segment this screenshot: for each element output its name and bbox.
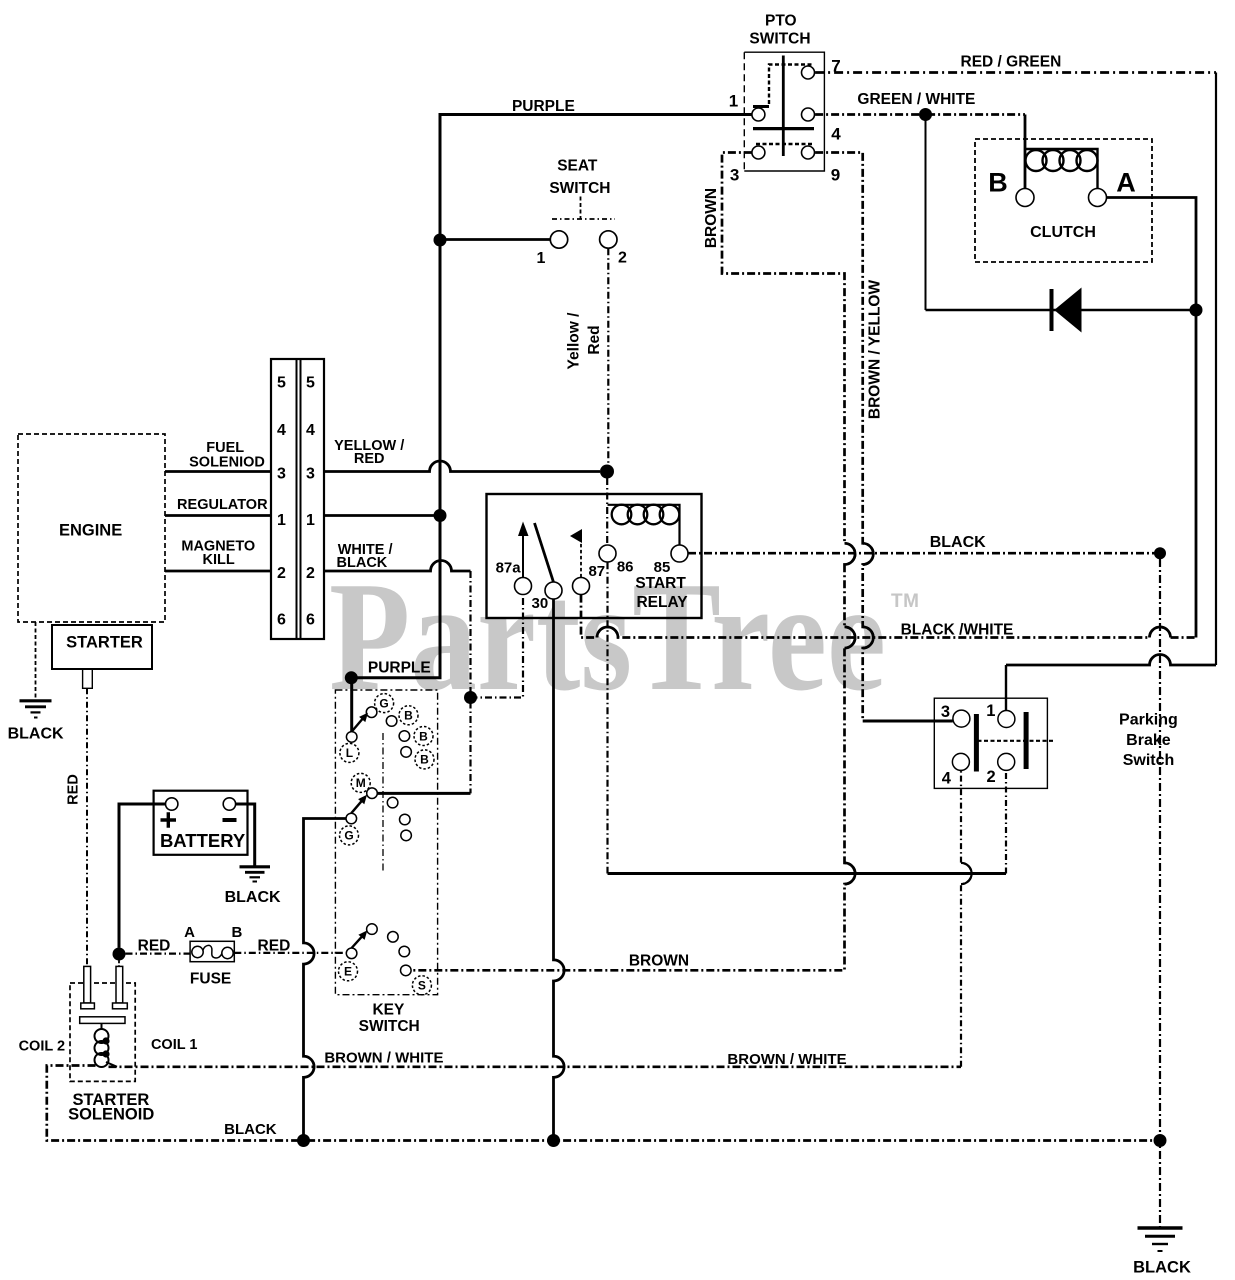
svg-text:RED: RED (258, 938, 291, 955)
svg-text:4: 4 (306, 422, 315, 439)
svg-text:BLACK: BLACK (1133, 1259, 1191, 1277)
svg-text:1: 1 (986, 702, 995, 720)
svg-text:7: 7 (831, 57, 840, 76)
svg-text:BLACK: BLACK (225, 889, 281, 906)
svg-text:REGULATOR: REGULATOR (177, 497, 268, 513)
svg-text:A: A (184, 924, 195, 941)
svg-text:4: 4 (831, 125, 841, 144)
svg-text:3: 3 (730, 166, 739, 185)
svg-text:6: 6 (277, 612, 286, 629)
svg-text:B: B (419, 729, 428, 743)
svg-text:BLACK: BLACK (930, 534, 986, 551)
svg-text:B: B (404, 709, 413, 723)
svg-text:3: 3 (277, 465, 286, 482)
svg-text:BROWN: BROWN (629, 952, 689, 969)
svg-text:SOLENIOD: SOLENIOD (189, 454, 265, 470)
svg-text:2: 2 (306, 565, 315, 582)
svg-text:BROWN / YELLOW: BROWN / YELLOW (867, 280, 884, 420)
svg-text:Brake: Brake (1126, 732, 1171, 749)
svg-text:BLACK: BLACK (8, 725, 64, 742)
svg-text:4: 4 (277, 422, 286, 439)
svg-text:RED: RED (66, 774, 82, 805)
svg-text:BROWN / WHITE: BROWN / WHITE (727, 1051, 846, 1068)
svg-text:BLACK: BLACK (337, 555, 388, 571)
svg-text:1: 1 (729, 92, 738, 111)
svg-text:SWITCH: SWITCH (549, 180, 610, 197)
svg-text:RED / GREEN: RED / GREEN (961, 53, 1062, 70)
svg-text:2: 2 (618, 250, 627, 267)
svg-text:9: 9 (831, 166, 840, 185)
svg-text:G: G (379, 696, 388, 710)
svg-text:BATTERY: BATTERY (160, 830, 246, 851)
svg-text:PURPLE: PURPLE (368, 660, 431, 677)
svg-text:Yellow /: Yellow / (566, 312, 583, 370)
svg-text:KEY: KEY (372, 1002, 405, 1019)
svg-text:L: L (346, 746, 353, 760)
svg-text:1: 1 (277, 512, 286, 529)
svg-text:STARTER: STARTER (66, 634, 143, 652)
svg-text:87: 87 (588, 563, 605, 580)
svg-text:2: 2 (277, 565, 286, 582)
svg-text:PTO: PTO (765, 13, 797, 30)
svg-text:M: M (356, 776, 366, 790)
svg-text:1: 1 (306, 512, 315, 529)
svg-text:4: 4 (942, 769, 952, 787)
svg-text:2: 2 (987, 768, 996, 786)
svg-text:KILL: KILL (202, 552, 234, 568)
svg-text:CLUTCH: CLUTCH (1030, 224, 1096, 241)
svg-text:E: E (344, 965, 352, 979)
svg-text:TM: TM (891, 591, 919, 612)
svg-text:87a: 87a (496, 559, 522, 576)
svg-text:6: 6 (306, 612, 315, 629)
svg-text:A: A (1116, 168, 1136, 198)
svg-text:Red: Red (586, 325, 603, 354)
svg-text:B: B (988, 168, 1008, 198)
svg-text:Switch: Switch (1123, 752, 1175, 769)
svg-text:SWITCH: SWITCH (359, 1018, 420, 1035)
svg-text:COIL 2: COIL 2 (19, 1038, 65, 1054)
svg-text:START: START (635, 575, 686, 592)
svg-text:FUSE: FUSE (190, 971, 231, 988)
svg-text:RELAY: RELAY (636, 594, 688, 611)
svg-text:BLACK /WHITE: BLACK /WHITE (901, 621, 1014, 638)
svg-text:B: B (420, 753, 429, 767)
svg-text:5: 5 (306, 375, 315, 392)
svg-text:BLACK: BLACK (224, 1121, 277, 1138)
svg-text:86: 86 (617, 559, 634, 576)
svg-text:3: 3 (306, 465, 315, 482)
svg-text:G: G (344, 829, 353, 843)
svg-text:B: B (231, 924, 242, 941)
svg-text:1: 1 (537, 250, 546, 267)
svg-text:85: 85 (654, 559, 671, 576)
svg-text:COIL 1: COIL 1 (151, 1037, 197, 1053)
svg-text:30: 30 (532, 595, 549, 612)
svg-text:3: 3 (941, 703, 950, 721)
svg-text:BROWN / WHITE: BROWN / WHITE (324, 1050, 443, 1067)
svg-text:SEAT: SEAT (557, 158, 598, 175)
svg-text:GREEN / WHITE: GREEN / WHITE (857, 91, 975, 108)
svg-text:PURPLE: PURPLE (512, 98, 575, 115)
svg-text:SWITCH: SWITCH (749, 31, 810, 48)
svg-text:SOLENOID: SOLENOID (68, 1106, 154, 1124)
svg-text:5: 5 (277, 375, 286, 392)
svg-text:Parking: Parking (1119, 712, 1178, 729)
svg-text:RED: RED (138, 938, 171, 955)
svg-text:ENGINE: ENGINE (59, 522, 122, 540)
svg-text:BROWN: BROWN (703, 188, 720, 248)
svg-text:S: S (418, 979, 426, 993)
svg-text:RED: RED (354, 451, 385, 467)
